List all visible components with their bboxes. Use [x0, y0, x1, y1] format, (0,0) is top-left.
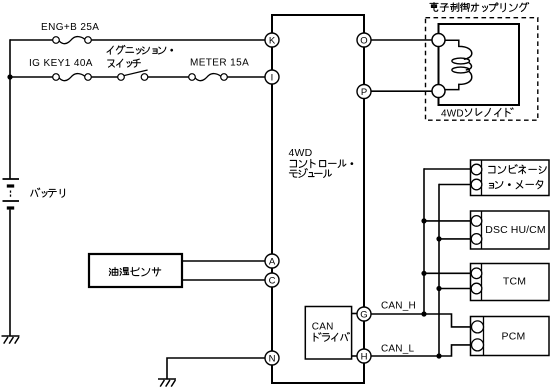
junction bus1 CAN_H [421, 311, 426, 316]
wire W1 battery to fuse ENG+B [10, 39, 53, 41]
net CAN_L wire from terminal H [372, 345, 473, 356]
solenoid pin top [432, 34, 445, 47]
svg-text:H: H [361, 351, 368, 362]
junction bus1 TCM [421, 271, 426, 276]
svg-text:C: C [269, 275, 276, 286]
label M1 コンビネーション・メータ [489, 166, 495, 172]
electronically controlled coupling enclosure (dashed) [426, 18, 538, 121]
svg-text:DSC HU/CM: DSC HU/CM [485, 224, 545, 236]
terminal pin N [265, 351, 279, 365]
battery BAT1 [3, 179, 20, 208]
fuse F2 IG KEY1 40A [53, 74, 92, 81]
label battery バッテリ [31, 188, 40, 196]
junction bus1 DSC [421, 218, 426, 223]
terminal pin H [357, 349, 371, 363]
4WD control module U1 [272, 15, 364, 383]
wire bus1 to TCM pin 1 [424, 272, 472, 274]
svg-text:4WD: 4WD [441, 109, 464, 120]
switch S1 ignition switch [118, 70, 148, 80]
CAN bus line 2 vertical [438, 184, 440, 356]
wire bus1 to combination meter pin 1 [424, 168, 472, 170]
4WD solenoid L1 box [439, 24, 520, 105]
svg-text:I: I [271, 72, 274, 83]
svg-text:G: G [360, 309, 367, 320]
wire terminal O to solenoid [372, 39, 434, 41]
svg-text:O: O [360, 35, 367, 46]
terminal pin C [265, 273, 279, 287]
terminal pin O [357, 33, 371, 47]
terminal pin I [265, 70, 279, 84]
svg-text:CAN_H: CAN_H [381, 301, 416, 312]
fuse F3 METER 15A [189, 74, 228, 81]
label S1 ignition switch [107, 46, 113, 54]
ground G2 [158, 379, 176, 387]
wire bus2 to DSC pin 2 [439, 238, 472, 240]
ground G1 [2, 336, 20, 344]
wire W5 switch to fuse METER [148, 76, 189, 78]
svg-text:4WD: 4WD [289, 147, 313, 159]
solenoid pin bottom [432, 85, 445, 98]
combination meter M1 box [471, 160, 550, 196]
wire terminal P to solenoid [372, 90, 434, 92]
svg-text:IG KEY1 40A: IG KEY1 40A [29, 58, 93, 69]
wire CAN driver to terminal H [352, 355, 358, 357]
net CAN_H wire from terminal G [372, 314, 473, 327]
wire bus1 to DSC pin 1 [424, 220, 472, 222]
svg-text:K: K [269, 35, 276, 46]
oil temperature sensor B1 box [89, 254, 182, 287]
terminal pin G [357, 307, 371, 321]
wire W2 fuse ENG+B to terminal K [91, 39, 265, 41]
junction bus2 DSC [436, 236, 441, 241]
TCM U4 box [471, 264, 550, 301]
svg-text:PCM: PCM [502, 331, 526, 343]
wire W3 bus to fuse IG KEY1 [10, 76, 53, 78]
fuse F1 ENG+B 25A [53, 37, 92, 44]
svg-text:TCM: TCM [503, 276, 526, 288]
wire W4 fuse IG KEY1 to ignition switch [91, 76, 118, 78]
label B1 油温センサ [109, 267, 118, 275]
wire CAN driver to terminal G [352, 313, 358, 315]
PCM U5 box [471, 317, 550, 356]
wire bus2 to combination meter pin 2 [439, 184, 472, 186]
svg-text:CAN_L: CAN_L [381, 344, 414, 355]
wire sensor to terminal A [182, 260, 266, 262]
svg-text:METER 15A: METER 15A [190, 58, 249, 69]
svg-text:N: N [269, 353, 276, 364]
terminal pin K [265, 33, 279, 47]
junction bus2 TCM [436, 286, 441, 291]
junction bus2 CAN_L [436, 353, 441, 358]
wire terminal N to ground [167, 358, 266, 379]
svg-text:P: P [361, 87, 367, 98]
left bus vertical wire from W1 to battery [9, 39, 11, 179]
CAN bus line 1 vertical [423, 168, 425, 314]
terminal pin P [357, 85, 371, 99]
label 電子制御カップリング [430, 3, 438, 12]
wire W6 fuse METER to terminal I [227, 76, 265, 78]
DSC HU/CM U3 box [471, 211, 550, 249]
svg-text:CAN: CAN [312, 322, 334, 333]
wire bus2 to TCM pin 2 [439, 288, 472, 290]
svg-text:A: A [269, 256, 276, 267]
wire battery negative to ground [9, 210, 11, 336]
inductor coil L1 [445, 40, 472, 59]
wire sensor to terminal C [182, 279, 266, 281]
junction node battery bus [7, 74, 12, 79]
terminal pin A [265, 254, 279, 268]
svg-text:ENG+B 25A: ENG+B 25A [41, 22, 99, 33]
CAN driver U2 box [305, 307, 351, 360]
